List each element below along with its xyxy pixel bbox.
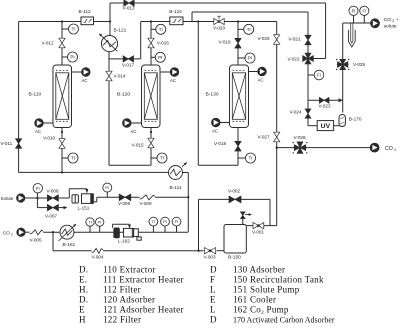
svg-text:V-024: V-024: [290, 110, 302, 115]
valve V-020: [214, 18, 224, 24]
svg-text:V-016: V-016: [157, 41, 169, 46]
wire rail 2 (y=12) from B-122 outlet to V-021 drop: [192, 11, 308, 13]
svg-text:B-111: B-111: [170, 185, 182, 191]
svg-text:L: L: [210, 305, 216, 315]
node B-130 feed tee: [237, 20, 239, 22]
valve V-027: [274, 132, 280, 142]
wire top rail 0 left segment (y=21.5): [19, 21, 110, 23]
svg-text:B-150: B-150: [228, 254, 241, 260]
wire B-121 riser x=109 down through V-014: [108, 52, 110, 166]
instrument TI stub B-130 outlet: [238, 157, 246, 159]
instrument TI (B-120 feed): [156, 24, 166, 34]
wire V-001 line y=225.6: [243, 225, 277, 227]
svg-text:FI: FI: [36, 186, 40, 191]
valve V-025: [338, 59, 348, 69]
instrument TI stub B-110 outlet: [62, 157, 69, 159]
svg-text:D: D: [210, 264, 217, 274]
adsorber B-120: [142, 65, 161, 128]
valve V-012: [59, 38, 65, 48]
wire V-004 branch drop x=53: [52, 232, 54, 251]
wire V-007 branch end arrow: [64, 206, 68, 209]
wire B-110 outlet pipe down to bottom rail: [61, 128, 63, 173]
extractor B-110: [53, 65, 72, 128]
svg-text:H: H: [79, 315, 86, 323]
pump CO2+solute product: [371, 19, 380, 28]
svg-text:L-151: L-151: [78, 205, 90, 210]
svg-text:AC: AC: [35, 129, 41, 134]
svg-text:FI: FI: [317, 73, 321, 78]
valve V-002: [229, 196, 241, 203]
instrument FI stub (after L-162): [176, 226, 178, 232]
legend right column: [210, 264, 335, 324]
valve V-021: [305, 35, 311, 45]
wire V-006 branch and riser to L-151 bracket: [59, 197, 70, 199]
svg-text:V-022: V-022: [288, 57, 300, 62]
svg-text:V-014: V-014: [114, 74, 126, 79]
pump CO2 feed: [17, 228, 25, 236]
wire left bypass vertical x=18.6 through V-011: [18, 22, 20, 173]
pump CO2 vent: [370, 143, 379, 152]
node V-002 riser crossing: [197, 250, 199, 252]
svg-text:151 Solute Pump: 151 Solute Pump: [233, 284, 300, 294]
svg-text:V-010: V-010: [43, 136, 55, 141]
svg-text:F: F: [210, 274, 215, 284]
valve V-028 (4-way): [294, 142, 306, 154]
wire B-130 outlet pipe, elbow left, riser x=198.3 to rail0: [237, 128, 239, 166]
svg-text:V-006: V-006: [47, 189, 59, 194]
svg-text:PI: PI: [70, 55, 74, 60]
svg-text:E: E: [210, 294, 216, 304]
check valve V-009: [140, 195, 156, 200]
node B-110 outlet flange: [61, 131, 63, 133]
UV cell: [317, 121, 333, 131]
AC pump B-130 bottom stub: [220, 122, 230, 124]
svg-text:161 Cooler: 161 Cooler: [233, 294, 276, 304]
cooler B-161 arrow: [59, 224, 77, 241]
wire V-002 line y=199.4 with risers both ends: [199, 198, 271, 200]
svg-text:D.: D.: [79, 264, 88, 274]
wire L-151 discharge line y=197.3 to B-111 junction: [97, 196, 140, 198]
svg-text:V-011: V-011: [1, 141, 13, 146]
wire B-170 / V-025 vertical x=342.7: [342, 23, 344, 113]
node B-111 feed junction: [187, 196, 189, 198]
heater B-121 arrow: [99, 34, 117, 52]
wire vertical from rail1 down through rail0 to B-121 top: [109, 3, 111, 36]
svg-text:PI: PI: [98, 220, 102, 224]
heater B-111 arrow: [182, 162, 187, 166]
AC pump B-130 top stub: [249, 71, 258, 73]
valve V-011: [16, 139, 22, 149]
svg-text:V-008: V-008: [118, 201, 130, 206]
svg-text:V-004: V-004: [92, 254, 104, 259]
cold trap inner tube: [351, 23, 353, 43]
filter B-122: [170, 17, 183, 25]
svg-text:150 Recirculation Tank: 150 Recirculation Tank: [233, 274, 324, 284]
valve V-013: [124, 0, 134, 6]
svg-text:B-130: B-130: [206, 92, 219, 98]
instrument PI (B-110 feed): [68, 52, 78, 62]
valve V-006: [47, 195, 58, 201]
svg-text:112 Filter: 112 Filter: [103, 284, 141, 294]
svg-text:V-027: V-027: [258, 135, 270, 140]
instrument FI (trap): [360, 6, 369, 15]
svg-text:L-162: L-162: [118, 239, 130, 244]
valve V-003: [205, 248, 216, 254]
svg-text:PI: PI: [163, 219, 167, 224]
svg-text:V-017: V-017: [122, 63, 134, 68]
valve V-001: [253, 222, 264, 228]
instrument PI (after B-161): [96, 218, 104, 226]
wire V-021 / V-022 drop x=308 from rail2 to UV elbow: [307, 12, 309, 126]
AC pump B-120 bottom: [123, 119, 132, 128]
AC pump B-130 top: [258, 67, 267, 76]
wire B-150 top stub and vent stub: [242, 219, 244, 227]
svg-text:UV: UV: [321, 123, 331, 130]
svg-text:V-013: V-013: [123, 6, 135, 11]
filter B-112: [81, 17, 94, 25]
instrument TI (B-130 feed): [244, 24, 254, 34]
svg-text:PI: PI: [105, 185, 109, 190]
valve V-019: [235, 38, 241, 48]
svg-text:170 Activated Carbon Adsorber: 170 Activated Carbon Adsorber: [233, 316, 335, 323]
wire CO2 vent line y=147.6 from V-027 junction to CO2 pump: [277, 147, 371, 149]
instrument TI stub B-120 feed: [151, 28, 156, 30]
solute pump L-151: [72, 195, 78, 203]
activated carbon adsorber B-170: [339, 115, 345, 127]
heater B-111: [169, 166, 183, 180]
svg-text:130 Adsorber: 130 Adsorber: [233, 264, 285, 274]
wire cold-trap header y=23 to product pump: [343, 22, 371, 24]
svg-text:E: E: [79, 305, 85, 315]
svg-text:V-026: V-026: [258, 36, 270, 41]
svg-text:122 Filter: 122 Filter: [103, 315, 141, 323]
svg-text:B-120: B-120: [117, 92, 130, 98]
svg-text:V-028: V-028: [294, 135, 306, 140]
svg-text:H.: H.: [79, 284, 88, 294]
node solute FI tee: [36, 197, 38, 199]
svg-text:PI: PI: [158, 55, 162, 60]
AC pump B-110 bottom: [35, 119, 44, 128]
valve V-010: [59, 139, 65, 149]
instrument TI stub B-130 feed: [238, 28, 244, 30]
valve V-014: [106, 71, 112, 81]
wire right rail drop x=276.7 from rail0 down to V-001 line: [276, 22, 278, 226]
wire top rail 1 (y=3) from junction above B-121 to right corner: [110, 2, 326, 4]
svg-text:PI: PI: [352, 8, 356, 13]
instrument TI (B-110 feed): [69, 24, 79, 34]
wire main CO2 line y=232.2: [25, 231, 29, 233]
instrument PI trap stub: [353, 15, 355, 23]
valve V-016: [148, 38, 154, 48]
instrument PI stub (after L-162): [164, 226, 166, 232]
instrument TI (B-110 outlet): [68, 153, 78, 163]
cooler B-161: [60, 225, 74, 239]
AC pump B-110 bottom stub: [43, 122, 53, 124]
instrument PI stub B-110 feed: [62, 56, 68, 58]
pump solute: [17, 194, 25, 202]
instrument PI stub (after B-161): [99, 226, 101, 232]
node V-023 junction at B-170 riser: [339, 98, 343, 102]
svg-text:TI: TI: [249, 156, 253, 161]
svg-text:V-003: V-003: [204, 254, 216, 259]
CO2 pump L-162 bracket: [113, 223, 130, 225]
svg-text:121 Adsorber Heater: 121 Adsorber Heater: [103, 305, 184, 315]
svg-text:TI: TI: [160, 156, 164, 161]
svg-text:TI: TI: [159, 27, 163, 32]
svg-text:B-110: B-110: [29, 92, 42, 98]
valve V-007: [47, 204, 58, 210]
svg-text:V-021: V-021: [289, 37, 301, 42]
node B-120 outlet flange: [150, 131, 152, 133]
check valve V-005: [29, 230, 43, 235]
solute pump L-151 bracket arrow: [85, 189, 88, 194]
svg-text:V-015: V-015: [132, 143, 144, 148]
node V-004 branch tee: [52, 231, 54, 233]
svg-text:B-122: B-122: [169, 9, 182, 14]
wire solute pump discharge y=198: [25, 197, 47, 199]
valve V-008: [119, 194, 131, 201]
recirculation tank B-150: [224, 225, 246, 254]
check valve V-004: [92, 248, 103, 253]
wire bottom rail y=172.4 to B-111: [19, 171, 169, 173]
wire right drop of rail1 into V-022 right arm: [325, 3, 327, 59]
wire top rail 0 right segment (y=21.5): [141, 21, 277, 23]
svg-text:V-018: V-018: [214, 141, 226, 146]
wire B-110 feed pipe: [61, 22, 63, 66]
svg-text:V-023: V-023: [319, 104, 331, 109]
svg-text:TI: TI: [247, 27, 251, 32]
svg-text:120 Adsorber: 120 Adsorber: [103, 294, 155, 304]
svg-text:V-020: V-020: [213, 26, 225, 31]
svg-text:Solute: Solute: [1, 196, 14, 201]
instrument TI (B-120 outlet): [157, 153, 167, 163]
instrument TI (B-130 outlet): [246, 153, 256, 163]
svg-text:FI: FI: [175, 219, 179, 224]
svg-text:V-025: V-025: [353, 62, 365, 67]
instrument FI (after L-162): [172, 217, 181, 226]
valve V-024: [305, 109, 311, 118]
instrument PI (B-130 feed): [245, 53, 255, 63]
wire V-004 / V-003 line y=250.7 into B-150: [53, 250, 92, 252]
svg-text:V-005: V-005: [30, 238, 42, 243]
svg-text:TI: TI: [88, 220, 91, 224]
svg-text:solute: solute: [384, 23, 397, 29]
AC pump B-120 top: [170, 68, 179, 77]
instrument PI stub B-130 feed: [238, 57, 246, 59]
instrument FI (solute): [33, 184, 42, 193]
instrument PI stub B-120 feed: [151, 56, 156, 58]
wire V-023 bypass line y=100.3: [308, 99, 343, 101]
instrument TI (after L-162): [149, 217, 158, 226]
AC pump B-120 top stub: [160, 71, 170, 73]
svg-text:162 Co2 Pump: 162 Co2 Pump: [233, 305, 289, 316]
wire B-121 outlet through V-017 up to rail0: [109, 58, 141, 60]
instrument TI stub (after L-162): [152, 226, 154, 232]
svg-text:TI: TI: [72, 27, 76, 32]
valve V-026: [274, 35, 280, 45]
svg-text:CO 2 +: CO 2 +: [384, 17, 399, 23]
instrument FI solute stub: [36, 193, 38, 198]
wire B-130 feed pipe: [237, 22, 239, 66]
adsorber B-130: [230, 65, 249, 128]
valve V-015: [148, 138, 154, 148]
AC pump B-130 bottom: [212, 118, 221, 127]
instrument TI (after B-161): [86, 218, 94, 226]
svg-text:AC: AC: [170, 78, 176, 83]
svg-text:PI: PI: [248, 56, 252, 61]
wire B-111 inlet drop x=188.3: [187, 173, 189, 232]
svg-text:E.: E.: [79, 274, 87, 284]
instrument PI (trap): [349, 6, 358, 15]
valve V-017: [123, 56, 133, 62]
instrument PI (L-151): [103, 183, 112, 192]
svg-text:AC: AC: [131, 129, 137, 134]
svg-text:FI: FI: [362, 8, 366, 13]
wire V-007 branch y=207.6: [36, 198, 38, 208]
instrument FI stub (V-022 line): [308, 74, 314, 76]
svg-text:B-161: B-161: [63, 242, 76, 248]
node B-110 feed tee: [61, 20, 63, 22]
AC pump B-110 top stub: [72, 71, 82, 73]
svg-text:V-002: V-002: [228, 189, 240, 194]
svg-text:AC: AC: [212, 128, 218, 133]
AC pump B-110 top: [82, 68, 91, 77]
svg-text:V-012: V-012: [42, 41, 54, 46]
wire UV outlet elbow to B-170 bottom: [334, 125, 343, 127]
valve V-018: [235, 141, 241, 151]
cold trap outer tube: [348, 30, 355, 47]
svg-text:TI: TI: [152, 219, 156, 224]
heater B-121: [101, 36, 117, 52]
instrument FI (V-022 line): [314, 70, 324, 80]
svg-text:V-009: V-009: [140, 201, 152, 206]
wire B-120 feed pipe: [150, 22, 152, 66]
svg-text:110 Extractor: 110 Extractor: [103, 264, 156, 274]
svg-text:B-112: B-112: [79, 9, 92, 14]
svg-text:V-019: V-019: [219, 40, 231, 45]
svg-text:B-121: B-121: [114, 28, 127, 34]
svg-text:AC: AC: [82, 78, 88, 83]
legend left column: [79, 264, 184, 324]
svg-text:D.: D.: [79, 294, 88, 304]
svg-text:B-170: B-170: [349, 117, 362, 123]
svg-text:CO 2: CO 2: [385, 146, 397, 152]
svg-text:TI: TI: [71, 156, 75, 161]
wire L-151 outlet hook: [94, 201, 97, 203]
instrument PI L-151 stub: [106, 192, 108, 197]
svg-text:L: L: [210, 284, 216, 294]
node V-028 line tee: [276, 146, 278, 148]
node B-120 feed tee: [150, 20, 152, 22]
node rail0/B-121 junction: [109, 20, 111, 22]
svg-text:111 Extractor Heater: 111 Extractor Heater: [103, 274, 184, 284]
instrument TI stub B-120 outlet: [151, 157, 158, 159]
instrument TI stub (after B-161): [89, 226, 91, 232]
instrument PI (after L-162): [161, 217, 170, 226]
wire B-120 outlet pipe, elbow left to V-014 riser: [150, 128, 152, 166]
node bottom rail tee at B-110: [61, 171, 63, 173]
instrument TI stub B-110 feed: [62, 28, 69, 30]
node B-130 riser tee: [197, 20, 199, 22]
CO2 pump L-162: [114, 228, 119, 238]
valve V-023: [319, 97, 329, 103]
svg-text:AC: AC: [258, 77, 264, 82]
instrument PI (B-120 feed): [155, 52, 165, 62]
svg-text:V-001: V-001: [252, 230, 264, 235]
svg-text:D: D: [210, 315, 217, 323]
vent valve on B-150: [241, 212, 246, 219]
valve V-022 (4-way): [303, 53, 314, 64]
svg-text:V-007: V-007: [45, 214, 57, 219]
AC pump B-120 bottom stub: [131, 122, 142, 124]
